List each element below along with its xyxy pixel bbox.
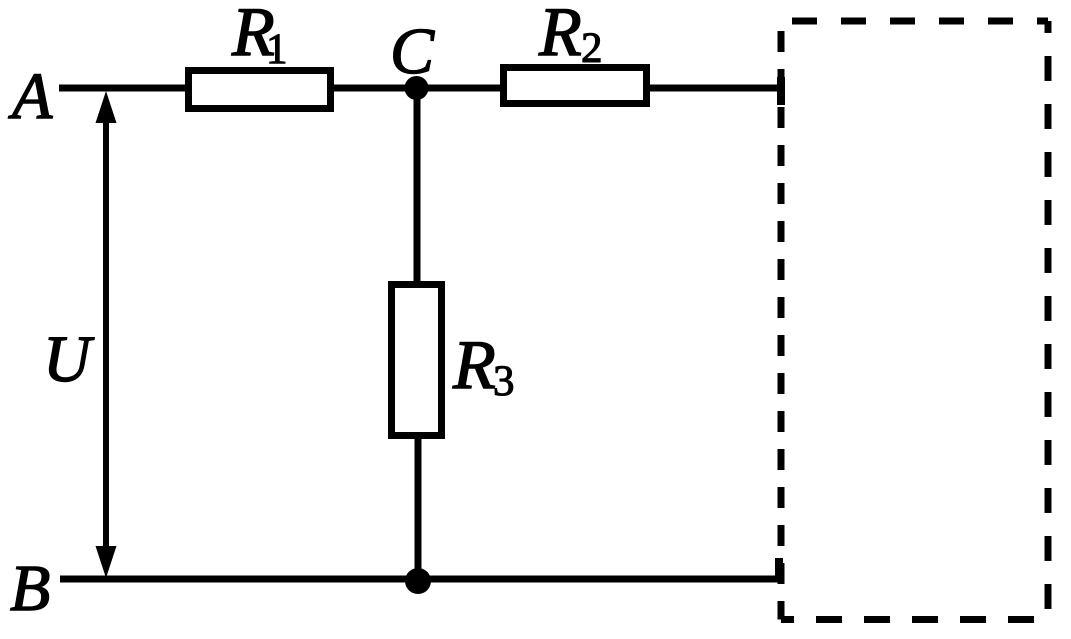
wire A to R1 — [59, 85, 190, 92]
svg-text:R: R — [538, 0, 582, 71]
resistor R2 — [504, 68, 647, 104]
arrowhead down at B — [96, 546, 117, 578]
dashed box left edge — [778, 21, 785, 620]
resistor R1 — [189, 71, 331, 109]
wire C to R2 — [417, 85, 504, 92]
wire stub tick at dashed box top joint — [777, 77, 785, 105]
wire R2 to dashed box — [646, 85, 783, 92]
svg-text:U: U — [43, 323, 95, 396]
svg-text:B: B — [10, 552, 50, 625]
wire R3 down to bottom junction — [415, 435, 422, 579]
wire R1 to node C — [330, 85, 417, 92]
dashed box right edge — [1045, 21, 1052, 620]
dashed box top edge — [781, 18, 1048, 25]
node C junction dot — [405, 76, 429, 100]
arrowhead up at A — [96, 91, 117, 123]
wire node C down to R3 — [414, 88, 421, 285]
bottom junction dot — [405, 568, 431, 594]
voltage arrow U shaft — [103, 118, 109, 550]
svg-text:1: 1 — [266, 26, 288, 73]
svg-text:2: 2 — [581, 25, 603, 72]
wire stub tick at dashed box bottom joint — [775, 558, 783, 582]
svg-text:3: 3 — [493, 358, 515, 405]
resistor R3 — [392, 285, 442, 436]
svg-text:A: A — [8, 60, 53, 133]
svg-text:R: R — [452, 327, 496, 404]
dashed box bottom edge — [781, 616, 1048, 623]
bottom wire B to dashed box — [60, 576, 781, 583]
